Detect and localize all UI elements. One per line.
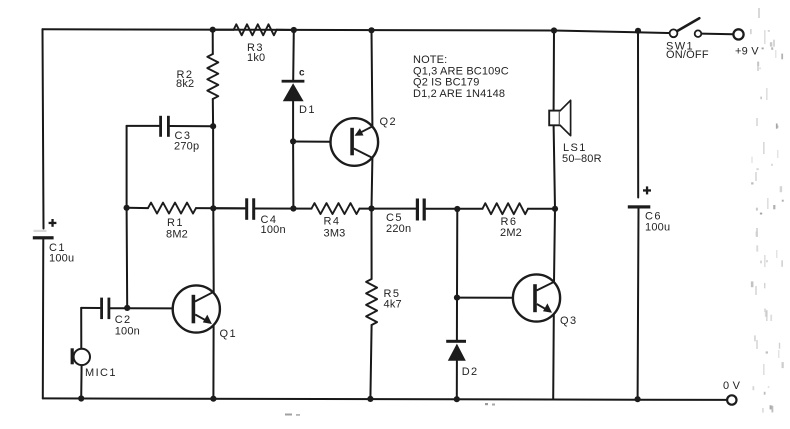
transistor Q1 (NPN BC109C) [173, 285, 220, 332]
resistor R1 [148, 203, 196, 214]
wire middle row: R4 right lead to C5 [360, 208, 417, 210]
node middle row / Q1 collector [210, 205, 216, 211]
svg-text:100u: 100u [49, 252, 74, 264]
wire middle row: R1 left lead [127, 207, 148, 209]
svg-text:Q2: Q2 [380, 116, 397, 128]
wire left rail lower (C1 to bottom) [42, 238, 45, 399]
svg-text:R1: R1 [167, 217, 184, 229]
diode D1 cathode bar [282, 80, 305, 83]
wire middle row: C4 right lead to R4 [255, 208, 312, 210]
wire D1 to Q2 base node [292, 102, 294, 142]
wire D2 bottom lead [456, 361, 458, 399]
node top rail / C6 [635, 28, 641, 34]
wire Q2 emitter column [371, 30, 374, 126]
svg-text:50–80R: 50–80R [562, 153, 602, 165]
resistor R3 [234, 24, 277, 35]
svg-text:D2: D2 [462, 366, 479, 378]
wire middle row: R1 right lead [196, 207, 246, 209]
node middle row right / LS1 / Q3 collector [552, 206, 558, 212]
wire R5 top lead [371, 209, 373, 280]
wire C3 row left segment [127, 125, 159, 127]
svg-text:100n: 100n [115, 325, 140, 337]
wire Q2 collector column [371, 158, 374, 209]
node bottom rail / C6 [635, 396, 641, 402]
wire bottom rail [43, 398, 727, 400]
wire MIC column lower [80, 364, 82, 398]
speaker LS1 [549, 100, 570, 135]
diode D1 triangle [283, 83, 304, 101]
node middle row / Q2 collector / R5 [368, 205, 374, 211]
wire Q2 base horizontal [293, 141, 330, 143]
svg-text:Q3: Q3 [560, 315, 577, 327]
node top rail / R2 [210, 27, 216, 33]
wire left rail upper (to C1) [43, 29, 44, 228]
svg-text:100n: 100n [261, 224, 286, 236]
svg-text:D1,2 ARE 1N4148: D1,2 ARE 1N4148 [413, 88, 505, 100]
microphone MIC1 [71, 348, 90, 365]
resistor R2 [207, 54, 218, 99]
node Q2 base / D1 [290, 138, 296, 144]
wire Q3 collector column [554, 209, 555, 282]
terminal 0V [727, 395, 736, 404]
svg-text:NOTE:: NOTE: [413, 54, 447, 66]
wire LS1 column top (rail to speaker) [553, 31, 555, 112]
wire D1 column top lead [292, 30, 295, 80]
resistor R6 [483, 203, 529, 214]
capacitor C6 plate bar (electrolytic) [628, 205, 651, 208]
node bottom rail / D2 [454, 396, 460, 402]
note text block [413, 54, 509, 100]
node Q3 base / D2 [454, 295, 460, 301]
diode D2 triangle [448, 344, 466, 361]
node top rail / Q2 emitter [368, 27, 374, 33]
wire C6 column top [637, 31, 639, 198]
svg-text:220n: 220n [386, 223, 411, 235]
node middle row / D2 column [454, 206, 460, 212]
node middle row left (R1/C3 column) [124, 205, 130, 211]
diode D2 cathode bar [446, 340, 466, 343]
wire Q1 emitter column [212, 326, 214, 399]
wire Q3 emitter column [552, 314, 555, 399]
svg-text:Q1: Q1 [220, 328, 237, 340]
svg-text:Q2 IS BC179: Q2 IS BC179 [413, 77, 479, 89]
transistor Q3 (NPN BC109C) [513, 274, 560, 321]
wire C2 left segment to MIC column [81, 307, 100, 309]
wire R3 right lead [277, 29, 294, 31]
wire column x213 (C3 node to middle row) [212, 126, 214, 208]
wire MIC column upper [80, 308, 82, 349]
capacitor C1 plate bar (electrolytic) [33, 236, 54, 239]
C1 plus sign [49, 222, 57, 224]
capacitor C4 plates [245, 198, 248, 220]
wire D2 column: middle row to Q3 base node [456, 209, 458, 298]
wire top rail [43, 29, 674, 33]
wire R2 bottom lead to C3 node [212, 99, 214, 126]
wire C4 left lead [213, 207, 245, 209]
capacitor C1 faint top plate [34, 230, 47, 232]
svg-text:+9 V: +9 V [735, 46, 759, 58]
wire LS1 column bottom (speaker to middle row) [554, 125, 555, 209]
node top rail / LS1 [551, 27, 557, 33]
switch SW1 [670, 18, 702, 37]
node bottom rail / MIC1 [78, 395, 84, 401]
node C3 / R2 junction [210, 123, 216, 129]
wire middle row: R6 right lead to node [528, 208, 555, 210]
wire middle row: C5 right lead to R6 [425, 208, 483, 210]
svg-text:8M2: 8M2 [166, 228, 188, 240]
svg-text:R4: R4 [324, 215, 341, 227]
wire R5 bottom lead [370, 325, 371, 399]
wire C2 right lead to Q1 base [110, 307, 172, 309]
svg-text:ON/OFF: ON/OFF [666, 49, 709, 61]
wire Q3 base node to D2 [456, 298, 458, 340]
svg-text:MIC1: MIC1 [85, 367, 117, 379]
wire Q3 base horizontal [457, 297, 513, 299]
svg-text:c: c [299, 68, 305, 79]
wire C3 row right segment [170, 125, 213, 127]
svg-text:4k7: 4k7 [384, 299, 402, 311]
node middle row / D1 column [290, 205, 296, 211]
capacitor C5 plates [416, 199, 419, 221]
C6 plus sign [643, 189, 651, 191]
wire Q2 base node to middle row [292, 141, 294, 208]
svg-text:100u: 100u [645, 222, 670, 234]
node bottom rail / Q1 emitter [210, 396, 216, 402]
wire Q1 collector column [212, 208, 214, 292]
wire column x126 (C3 row down to C2 row) [126, 126, 129, 308]
node C2 / column x126 [124, 305, 130, 311]
svg-text:0 V: 0 V [723, 380, 741, 392]
capacitor C3 plates [159, 116, 162, 137]
wire R2 top lead [212, 30, 214, 54]
capacitor C2 plates [100, 298, 103, 320]
resistor R5 [366, 279, 377, 325]
wire SW1 to +9V terminal [701, 33, 733, 36]
svg-text:Q1,3 ARE BC109C: Q1,3 ARE BC109C [413, 65, 509, 77]
wire R3 left lead [213, 29, 234, 31]
svg-text:1k0: 1k0 [247, 52, 265, 64]
wire C6 column bottom [637, 207, 640, 399]
resistor R4 [312, 203, 360, 214]
transistor Q2 (PNP BC179) [331, 118, 379, 166]
svg-text:2M2: 2M2 [500, 227, 522, 239]
svg-text:D1: D1 [299, 104, 316, 116]
terminal +9V [733, 29, 743, 39]
svg-text:270p: 270p [174, 141, 199, 153]
svg-text:8k2: 8k2 [176, 78, 194, 90]
node bottom rail / R5 [367, 396, 373, 402]
node top rail / D1 [291, 27, 297, 33]
svg-text:3M3: 3M3 [324, 227, 346, 239]
